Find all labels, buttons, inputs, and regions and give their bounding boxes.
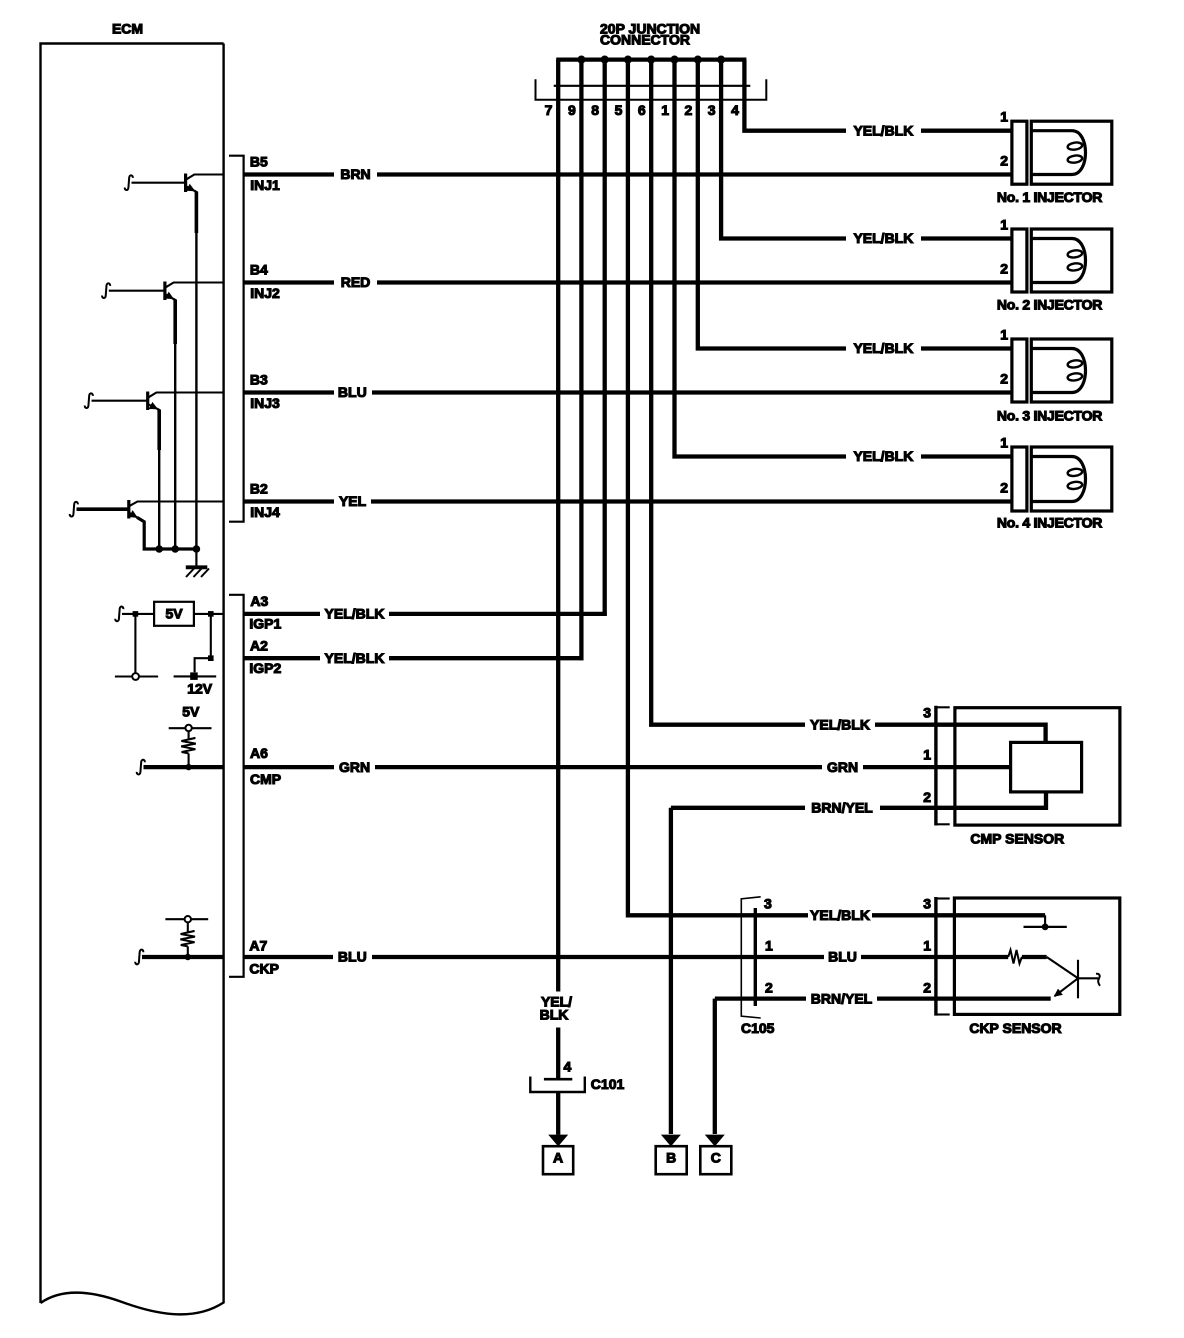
svg-text:1: 1 xyxy=(1000,109,1008,125)
svg-text:1: 1 xyxy=(923,746,931,762)
ECM connector bracket B5-B2 xyxy=(229,156,244,522)
injector 2 xyxy=(997,217,1112,313)
svg-text:YEL/BLK: YEL/BLK xyxy=(325,650,385,666)
connector C105 xyxy=(741,896,775,1037)
svg-text:5: 5 xyxy=(615,102,623,118)
wire A7 BLU xyxy=(135,949,1008,965)
svg-text:2: 2 xyxy=(1000,371,1008,387)
svg-text:1: 1 xyxy=(765,938,773,954)
ground xyxy=(186,549,209,577)
wire BRN/YEL CKP pin 2 xyxy=(715,990,1051,1006)
svg-text:2: 2 xyxy=(1000,480,1008,496)
junction dot IGP2 xyxy=(208,655,214,661)
svg-text:B3: B3 xyxy=(250,372,268,388)
CMP connector bracket xyxy=(936,706,950,826)
wire YEL/BLK injector 4 xyxy=(853,448,1011,464)
wire B5 BRN xyxy=(244,166,1012,182)
wire pin 2 column xyxy=(698,60,846,349)
svg-text:1: 1 xyxy=(1000,217,1008,233)
svg-text:2: 2 xyxy=(765,979,773,995)
wire xyxy=(134,614,136,677)
svg-text:RED: RED xyxy=(341,274,371,290)
svg-text:B: B xyxy=(666,1149,676,1165)
svg-text:5V: 5V xyxy=(165,606,183,622)
svg-text:2: 2 xyxy=(1000,261,1008,277)
svg-text:No. 3 INJECTOR: No. 3 INJECTOR xyxy=(997,408,1102,424)
svg-text:YEL/BLK: YEL/BLK xyxy=(853,230,913,246)
wire pin 9 column xyxy=(579,60,583,661)
svg-text:4: 4 xyxy=(731,102,739,118)
injector 3 xyxy=(997,327,1112,424)
wire pin 6 column xyxy=(651,60,805,725)
junction dot emitter bus xyxy=(155,545,163,553)
svg-text:3: 3 xyxy=(764,896,772,912)
wire BRN/YEL CMP pin 2 xyxy=(671,792,1046,816)
CKP sensor xyxy=(954,898,1119,1036)
svg-text:4: 4 xyxy=(564,1059,572,1075)
wire B3 BLU xyxy=(244,384,1012,400)
capacitor C101 xyxy=(530,1076,624,1092)
svg-text:BLU: BLU xyxy=(828,949,857,965)
wire YEL/BLK injector 3 xyxy=(853,340,1011,356)
svg-text:B4: B4 xyxy=(250,262,268,278)
wire pin 5 column xyxy=(628,60,808,916)
wire B4 RED xyxy=(244,274,1012,290)
wire pin 3 column xyxy=(721,60,846,239)
resistor R2 (CKP pull-up) xyxy=(180,922,195,957)
resistor R1 (CMP pull-up) xyxy=(181,731,196,767)
svg-text:YEL/BLK: YEL/BLK xyxy=(810,907,870,923)
transistor Q4 (INJ4 driver) xyxy=(70,500,224,549)
junction dot emitter bus xyxy=(193,545,201,553)
5V regulator U1 xyxy=(115,602,223,626)
svg-text:BLU: BLU xyxy=(338,949,367,965)
wire A3 IGP1 YEL/BLK xyxy=(244,606,607,622)
svg-text:No. 2 INJECTOR: No. 2 INJECTOR xyxy=(997,297,1102,313)
20P junction connector busbar xyxy=(556,57,746,61)
svg-text:IGP2: IGP2 xyxy=(249,660,281,676)
wire YEL/BLK injector 1 xyxy=(853,122,1011,138)
junction dot pin 6 xyxy=(647,56,655,64)
svg-text:A6: A6 xyxy=(250,745,268,761)
svg-text:B5: B5 xyxy=(250,154,268,170)
svg-text:No. 4 INJECTOR: No. 4 INJECTOR xyxy=(997,515,1102,531)
junction dot 5V output xyxy=(208,611,214,617)
wire xyxy=(210,614,212,658)
svg-text:1: 1 xyxy=(1000,435,1008,451)
connector A xyxy=(543,1135,573,1175)
svg-text:8: 8 xyxy=(591,102,599,118)
svg-text:CKP SENSOR: CKP SENSOR xyxy=(969,1020,1061,1036)
junction dot pin 9 xyxy=(577,56,585,64)
svg-text:CMP SENSOR: CMP SENSOR xyxy=(970,831,1064,847)
svg-text:BRN: BRN xyxy=(340,166,370,182)
connector B xyxy=(656,1135,687,1175)
svg-text:C105: C105 xyxy=(741,1020,775,1036)
svg-text:YEL: YEL xyxy=(339,493,367,509)
junction dot pin 5 xyxy=(624,56,632,64)
20P junction connector body xyxy=(536,79,767,100)
svg-text:A2: A2 xyxy=(250,637,268,653)
wire xyxy=(195,658,211,672)
CKP connector bracket xyxy=(936,897,950,1016)
svg-text:5V: 5V xyxy=(182,703,200,719)
svg-text:3: 3 xyxy=(708,102,716,118)
svg-text:A3: A3 xyxy=(250,593,268,609)
svg-text:B2: B2 xyxy=(250,481,268,497)
junction dot 5V input xyxy=(133,611,139,617)
junction dot emitter bus xyxy=(171,545,179,553)
CMP sensor xyxy=(955,708,1120,847)
svg-text:YEL/BLK: YEL/BLK xyxy=(853,340,913,356)
svg-text:INJ1: INJ1 xyxy=(250,177,280,193)
wire C branch (CKP BRN/YEL to connector C) xyxy=(713,999,717,1134)
svg-text:No. 1 INJECTOR: No. 1 INJECTOR xyxy=(997,189,1102,205)
svg-text:3: 3 xyxy=(923,705,931,721)
ECM connector bracket A3-A7 xyxy=(229,595,244,977)
wire A2 IGP2 YEL/BLK xyxy=(244,650,584,666)
wire B branch (CMP BRN/YEL to connector B) xyxy=(669,808,673,1134)
svg-text:INJ3: INJ3 xyxy=(250,395,280,411)
svg-text:INJ2: INJ2 xyxy=(250,285,280,301)
20P junction connector label xyxy=(600,20,700,47)
node open terminal xyxy=(115,673,158,680)
svg-text:3: 3 xyxy=(923,896,931,912)
svg-text:9: 9 xyxy=(568,102,576,118)
svg-text:7: 7 xyxy=(545,102,553,118)
wire pin 7 column xyxy=(556,60,560,1135)
svg-text:1: 1 xyxy=(1000,327,1008,343)
svg-text:YEL/BLK: YEL/BLK xyxy=(810,716,870,732)
svg-text:GRN: GRN xyxy=(827,759,858,775)
wire A6 GRN xyxy=(137,759,1011,775)
svg-text:BLK: BLK xyxy=(540,1006,569,1022)
svg-text:2: 2 xyxy=(1000,153,1008,169)
wire YEL/BLK CKP pin 3 xyxy=(810,907,1045,923)
wire pin 1 column xyxy=(675,60,847,457)
svg-text:GRN: GRN xyxy=(339,759,370,775)
svg-text:12V: 12V xyxy=(187,681,213,697)
svg-text:C: C xyxy=(711,1149,721,1165)
svg-text:1: 1 xyxy=(923,938,931,954)
junction dot A6 xyxy=(185,764,191,770)
svg-text:BRN/YEL: BRN/YEL xyxy=(811,800,873,816)
svg-text:CONNECTOR: CONNECTOR xyxy=(600,32,690,48)
junction dot pin 3 xyxy=(717,56,725,64)
ECM box xyxy=(41,21,224,1315)
svg-text:2: 2 xyxy=(685,102,693,118)
svg-text:1: 1 xyxy=(661,102,669,118)
transistor Q3 (INJ3 driver) xyxy=(85,392,224,550)
svg-text:YEL/BLK: YEL/BLK xyxy=(853,448,913,464)
node 5V pull-up CKP xyxy=(165,916,208,922)
injector 1 xyxy=(997,109,1112,205)
svg-text:C101: C101 xyxy=(591,1076,625,1092)
svg-text:INJ4: INJ4 xyxy=(250,504,280,520)
svg-text:ECM: ECM xyxy=(112,21,143,37)
junction dot pin 2 xyxy=(694,56,702,64)
svg-text:IGP1: IGP1 xyxy=(249,616,281,632)
wire pin 4 column xyxy=(744,60,846,131)
junction dot pin 8 xyxy=(601,56,609,64)
injector 4 xyxy=(997,435,1112,531)
wire pin 8 column xyxy=(603,60,607,616)
svg-text:A7: A7 xyxy=(249,937,267,953)
svg-text:CKP: CKP xyxy=(249,961,279,977)
wire YEL/BLK CMP pin 3 xyxy=(810,716,1046,742)
svg-text:BRN/YEL: BRN/YEL xyxy=(811,990,873,1006)
junction dot pin 1 xyxy=(670,56,678,64)
wire YEL/BLK injector 2 xyxy=(853,230,1011,246)
svg-text:6: 6 xyxy=(638,102,646,118)
svg-text:2: 2 xyxy=(923,789,931,805)
svg-text:A: A xyxy=(553,1149,563,1165)
junction dot A7 xyxy=(185,954,191,960)
svg-text:2: 2 xyxy=(923,979,931,995)
wire B2 YEL xyxy=(244,493,1012,509)
transistor Q2 (INJ2 driver) xyxy=(102,282,224,550)
wire label YEL/BLK (pin 7 to C101) xyxy=(540,994,573,1023)
connector C xyxy=(700,1135,731,1175)
svg-text:YEL/BLK: YEL/BLK xyxy=(325,606,385,622)
node 5V pull-up CMP xyxy=(169,703,212,731)
svg-text:CMP: CMP xyxy=(250,771,281,787)
transistor Q1 (INJ1 driver) xyxy=(125,174,224,550)
svg-text:YEL/BLK: YEL/BLK xyxy=(853,122,913,138)
node 12V terminal xyxy=(174,672,217,696)
svg-text:BLU: BLU xyxy=(338,384,367,400)
